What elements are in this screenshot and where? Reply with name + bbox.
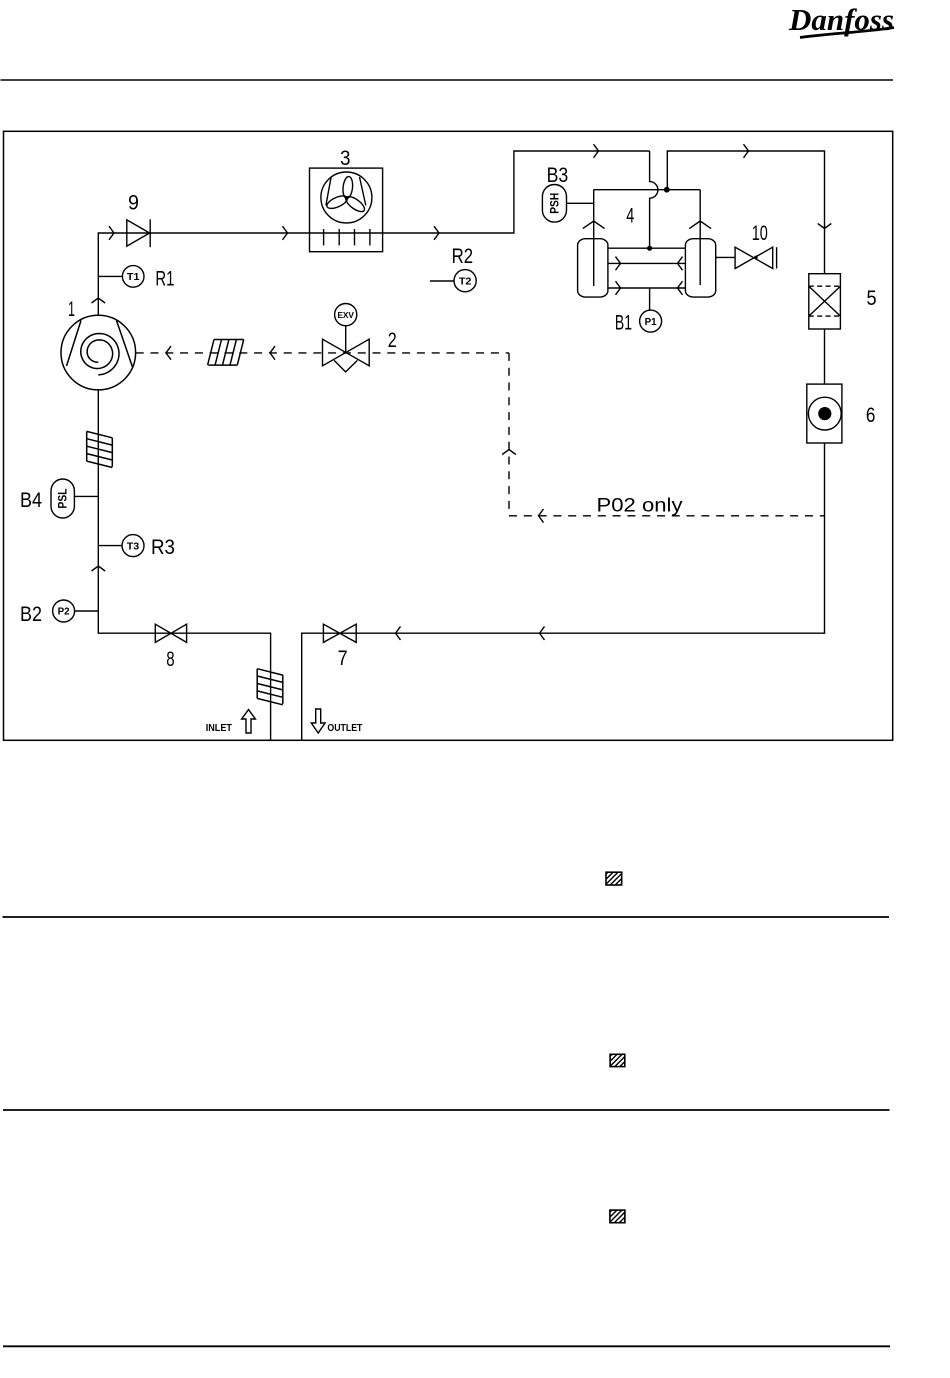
svg-text:Danfoss: Danfoss xyxy=(788,2,894,37)
svg-text:2: 2 xyxy=(388,329,397,352)
svg-text:EXV: EXV xyxy=(337,310,354,320)
svg-text:1: 1 xyxy=(68,298,75,321)
svg-text:P1: P1 xyxy=(645,316,657,328)
svg-text:R2: R2 xyxy=(452,245,474,268)
svg-text:R3: R3 xyxy=(151,536,175,559)
svg-text:P02 only: P02 only xyxy=(597,496,684,517)
svg-text:T2: T2 xyxy=(459,275,472,287)
svg-text:PSH: PSH xyxy=(550,193,562,214)
svg-text:P2: P2 xyxy=(58,606,70,618)
svg-text:9: 9 xyxy=(128,192,139,215)
svg-text:PSL: PSL xyxy=(58,489,70,509)
svg-text:3: 3 xyxy=(340,147,351,170)
svg-text:B1: B1 xyxy=(615,312,632,335)
svg-text:7: 7 xyxy=(338,647,348,670)
svg-text:4: 4 xyxy=(626,205,634,228)
svg-text:10: 10 xyxy=(752,222,768,245)
svg-text:B2: B2 xyxy=(20,603,42,626)
svg-text:T3: T3 xyxy=(127,540,140,552)
svg-text:OUTLET: OUTLET xyxy=(327,723,362,734)
svg-text:T1: T1 xyxy=(127,271,140,283)
svg-text:INLET: INLET xyxy=(206,723,232,734)
svg-text:6: 6 xyxy=(866,404,876,427)
svg-text:5: 5 xyxy=(867,287,877,310)
svg-text:B4: B4 xyxy=(20,489,42,512)
svg-text:B3: B3 xyxy=(547,164,569,187)
svg-text:R1: R1 xyxy=(155,268,174,291)
svg-text:8: 8 xyxy=(166,648,174,671)
